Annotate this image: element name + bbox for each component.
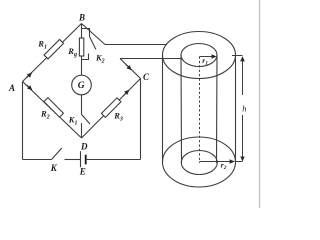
cylinder axis dashed [199,57,201,164]
switch K2 contact [82,54,89,60]
switch K2 blade [90,37,96,50]
galvanometer branch wire B-D [81,24,83,77]
wire K to battery [65,159,81,161]
svg-text:B: B [78,12,85,22]
wire bend to C [120,59,141,79]
page border line right [259,0,261,208]
resistor R1 [44,39,64,59]
battery E long plate [80,151,82,167]
r2 line extension to h line [235,161,243,163]
wire riser to C [140,79,142,160]
svg-text:R2: R2 [40,108,50,120]
svg-text:r1: r1 [202,56,208,66]
resistor R3 [101,98,121,118]
cylinder inner right wall [216,55,219,163]
cylinder outer top ellipse [163,32,236,79]
battery E short plate [85,155,87,165]
cylinder outer bottom ellipse [163,137,236,187]
cylinder inner top ellipse [181,44,217,67]
wire K1 to D [81,123,83,138]
cylinder inner left wall [180,55,183,163]
h dimension line lower [242,115,244,161]
cylinder outer left wall [162,55,164,162]
svg-text:D: D [80,142,88,152]
switch K1 blade [82,114,91,124]
svg-text:G: G [78,81,85,91]
resistor R2 [44,98,64,118]
arrow on A-B arm [27,73,32,78]
cylinder inner bottom ellipse [181,151,217,175]
svg-text:E: E [79,167,86,177]
wire A-D arm [23,82,82,139]
wire battery to C riser [87,159,141,161]
galvanometer G [72,75,92,95]
switch K2 branch [82,29,90,37]
resistor Rg [79,38,83,56]
arrow on A-D arm [27,85,32,90]
svg-text:r2: r2 [221,161,227,172]
switch K blade [52,148,62,160]
svg-text:Rg: Rg [67,46,77,58]
cylinder outer right wall [235,55,237,162]
svg-text:R1: R1 [37,39,47,51]
wire D-C arm [82,79,141,139]
wire G to K1 [81,95,83,115]
wire bottom left to switch K [23,159,52,161]
svg-text:A: A [8,83,15,93]
wire A down left side [22,82,24,160]
wire A-B arm [23,24,82,82]
r2 radius arrow [200,161,235,163]
arrow on bend-C wire [126,65,131,70]
h dimension line upper [242,57,244,95]
wire bend to cylinder inner [120,58,181,60]
svg-text:K2: K2 [95,52,105,64]
wire B to cylinder outer [82,24,168,45]
svg-text:R3: R3 [113,110,123,122]
svg-text:C: C [143,72,150,82]
svg-text:K: K [50,163,58,173]
svg-text:h: h [242,104,246,114]
svg-text:K1: K1 [68,115,78,127]
r1 radius arrow [200,56,216,58]
arrow on D-C arm [123,90,129,96]
h top leader [232,55,243,57]
